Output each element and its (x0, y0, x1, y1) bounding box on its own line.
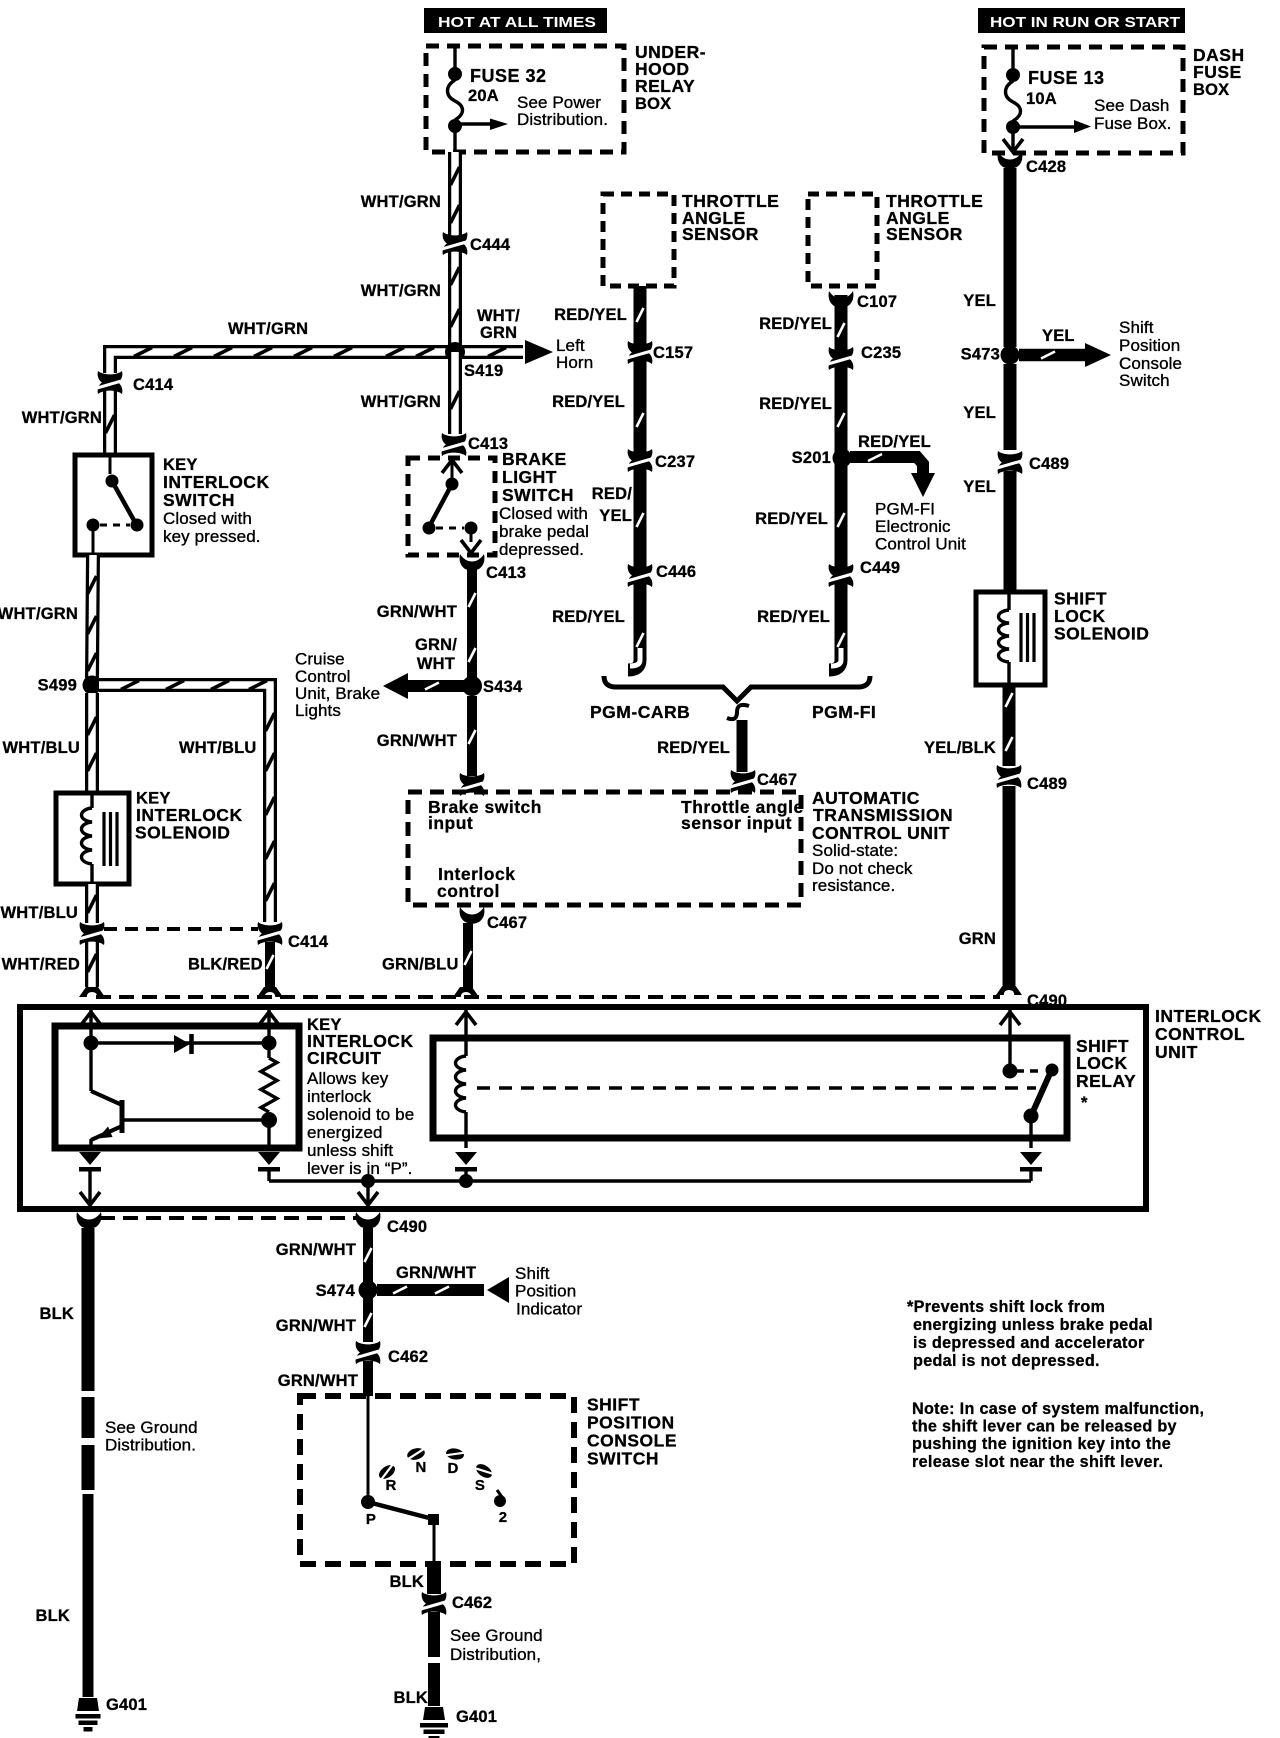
svg-text:Position: Position (1119, 336, 1180, 355)
svg-text:RELAY: RELAY (1076, 1071, 1136, 1091)
svg-text:C467: C467 (757, 771, 797, 789)
svg-text:Control Unit: Control Unit (875, 535, 966, 554)
svg-text:G401: G401 (106, 1696, 147, 1714)
svg-text:RED/YEL: RED/YEL (552, 393, 625, 411)
svg-text:BOX: BOX (1193, 81, 1229, 99)
svg-text:FUSE 13: FUSE 13 (1028, 68, 1105, 88)
svg-text:G401: G401 (456, 1708, 497, 1726)
svg-text:C237: C237 (655, 453, 695, 471)
svg-text:depressed.: depressed. (499, 540, 584, 559)
svg-text:S474: S474 (316, 1282, 356, 1300)
svg-text:solenoid to be: solenoid to be (307, 1105, 414, 1124)
svg-text:BOX: BOX (635, 95, 671, 113)
svg-text:S201: S201 (792, 449, 831, 467)
svg-text:Cruise: Cruise (295, 650, 345, 669)
svg-text:YEL: YEL (963, 478, 996, 496)
svg-text:WHT/GRN: WHT/GRN (361, 393, 441, 411)
svg-text:S: S (475, 1477, 485, 1494)
svg-text:LIGHT: LIGHT (502, 467, 557, 487)
svg-text:10A: 10A (1026, 90, 1057, 108)
svg-text:Allows key: Allows key (307, 1069, 389, 1088)
svg-text:Horn: Horn (556, 353, 593, 372)
svg-text:RED/YEL: RED/YEL (552, 608, 625, 626)
svg-text:LOCK: LOCK (1076, 1053, 1128, 1073)
svg-text:PGM-CARB: PGM-CARB (590, 702, 690, 722)
svg-text:C413: C413 (486, 564, 526, 582)
svg-text:SWITCH: SWITCH (502, 485, 574, 505)
svg-text:energizing unless brake pedal: energizing unless brake pedal (913, 1316, 1153, 1334)
svg-text:SOLENOID: SOLENOID (135, 823, 230, 843)
svg-text:the shift lever can be release: the shift lever can be released by (912, 1418, 1177, 1436)
svg-text:See Ground: See Ground (450, 1626, 543, 1645)
svg-text:S499: S499 (38, 677, 77, 695)
svg-text:WHT/BLU: WHT/BLU (1, 904, 78, 922)
svg-text:Distribution,: Distribution, (450, 1645, 541, 1664)
svg-text:C414: C414 (133, 376, 174, 394)
svg-text:C449: C449 (860, 559, 900, 577)
svg-text:WHT/GRN: WHT/GRN (361, 282, 441, 300)
svg-text:Position: Position (515, 1282, 576, 1301)
svg-text:YEL: YEL (1042, 327, 1075, 345)
svg-text:BLK: BLK (393, 1689, 428, 1707)
svg-text:C489: C489 (1029, 455, 1069, 473)
svg-text:C490: C490 (387, 1218, 427, 1236)
svg-text:P: P (366, 1511, 376, 1528)
svg-text:UNIT: UNIT (1155, 1042, 1198, 1062)
svg-text:RED/YEL: RED/YEL (657, 739, 730, 757)
svg-text:GRN/WHT: GRN/WHT (278, 1372, 358, 1390)
svg-text:C414: C414 (288, 933, 329, 951)
svg-text:is depressed and accelerator: is depressed and accelerator (913, 1334, 1145, 1352)
svg-text:S434: S434 (483, 678, 523, 696)
svg-text:RED/YEL: RED/YEL (755, 510, 828, 528)
svg-text:BLK: BLK (39, 1305, 74, 1323)
svg-text:energized: energized (307, 1123, 383, 1142)
svg-text:GRN: GRN (959, 930, 996, 948)
svg-text:key pressed.: key pressed. (163, 527, 261, 546)
svg-text:C446: C446 (656, 563, 696, 581)
svg-text:C467: C467 (487, 914, 527, 932)
svg-text:Shift: Shift (515, 1264, 550, 1283)
svg-text:RELAY: RELAY (635, 76, 695, 96)
svg-text:PGM-FI: PGM-FI (812, 702, 876, 722)
svg-text:YEL: YEL (599, 507, 632, 525)
svg-text:GRN/WHT: GRN/WHT (276, 1317, 356, 1335)
svg-text:BLK: BLK (35, 1607, 70, 1625)
svg-text:FUSE 32: FUSE 32 (470, 66, 547, 86)
svg-text:Electronic: Electronic (875, 517, 951, 536)
svg-text:D: D (447, 1460, 458, 1477)
svg-text:PGM-FI: PGM-FI (875, 500, 935, 519)
svg-text:release slot near the shift le: release slot near the shift lever. (912, 1453, 1163, 1471)
svg-text:pushing the ignition key into: pushing the ignition key into the (912, 1435, 1171, 1453)
svg-text:BLK/RED: BLK/RED (188, 956, 263, 974)
svg-text:S419: S419 (464, 362, 503, 380)
svg-text:lever is in “P”.: lever is in “P”. (307, 1159, 413, 1178)
svg-text:WHT/GRN: WHT/GRN (22, 409, 102, 427)
svg-text:GRN/WHT: GRN/WHT (396, 1264, 476, 1282)
svg-text:SHIFT: SHIFT (587, 1395, 640, 1415)
svg-text:WHT/GRN: WHT/GRN (228, 320, 308, 338)
svg-text:interlock: interlock (307, 1087, 372, 1106)
svg-text:C157: C157 (653, 344, 693, 362)
svg-text:resistance.: resistance. (812, 876, 895, 895)
svg-text:Indicator: Indicator (516, 1300, 582, 1319)
svg-text:FUSE: FUSE (1193, 62, 1242, 82)
svg-text:*: * (1081, 1094, 1088, 1112)
svg-text:sensor input: sensor input (681, 813, 792, 833)
svg-text:Switch: Switch (1119, 371, 1170, 390)
svg-text:See Ground: See Ground (105, 1418, 198, 1437)
svg-text:C489: C489 (1027, 775, 1067, 793)
svg-text:WHT/RED: WHT/RED (2, 956, 80, 974)
svg-text:Note: In case of system malfun: Note: In case of system malfunction, (912, 1400, 1204, 1418)
svg-text:CONTROL UNIT: CONTROL UNIT (812, 823, 950, 843)
svg-text:C462: C462 (452, 1594, 492, 1612)
svg-text:GRN/WHT: GRN/WHT (276, 1241, 356, 1259)
svg-text:HOT IN RUN OR START: HOT IN RUN OR START (990, 14, 1180, 31)
svg-text:Lights: Lights (295, 701, 341, 720)
svg-text:RED/YEL: RED/YEL (759, 395, 832, 413)
svg-text:pedal is not depressed.: pedal is not depressed. (913, 1352, 1100, 1370)
svg-text:C235: C235 (861, 344, 901, 362)
svg-text:R: R (385, 1477, 396, 1494)
svg-text:WHT/BLU: WHT/BLU (3, 739, 80, 757)
svg-text:GRN/BLU: GRN/BLU (382, 956, 459, 974)
svg-text:WHT/GRN: WHT/GRN (361, 193, 441, 211)
svg-text:control: control (437, 881, 500, 901)
svg-text:2: 2 (499, 1509, 508, 1526)
svg-text:Solid-state:: Solid-state: (812, 841, 898, 860)
svg-text:WHT/BLU: WHT/BLU (179, 739, 256, 757)
svg-text:Shift: Shift (1119, 318, 1154, 337)
svg-text:POSITION: POSITION (587, 1413, 675, 1433)
svg-text:S473: S473 (961, 346, 1000, 364)
svg-text:N: N (415, 1459, 426, 1476)
svg-text:C107: C107 (857, 293, 897, 311)
svg-text:RED/YEL: RED/YEL (554, 306, 627, 324)
svg-text:YEL: YEL (963, 404, 996, 422)
svg-text:INTERLOCK: INTERLOCK (1155, 1006, 1262, 1026)
svg-text:CONTROL: CONTROL (1155, 1024, 1245, 1044)
svg-text:YEL: YEL (963, 292, 996, 310)
svg-text:RED/YEL: RED/YEL (759, 315, 832, 333)
svg-text:GRN: GRN (480, 324, 517, 342)
svg-text:C428: C428 (1026, 158, 1066, 176)
svg-text:Distribution.: Distribution. (105, 1436, 196, 1455)
svg-text:SWITCH: SWITCH (587, 1449, 659, 1469)
svg-text:SENSOR: SENSOR (682, 224, 759, 244)
svg-text:C444: C444 (470, 236, 511, 254)
svg-text:See Dash: See Dash (1094, 96, 1169, 115)
svg-text:BLK: BLK (389, 1573, 424, 1591)
svg-text:HOT AT ALL TIMES: HOT AT ALL TIMES (438, 14, 596, 31)
svg-text:RED/YEL: RED/YEL (757, 608, 830, 626)
svg-text:WHT/: WHT/ (477, 307, 520, 325)
svg-text:20A: 20A (468, 87, 499, 105)
svg-text:CIRCUIT: CIRCUIT (307, 1048, 381, 1068)
svg-text:*Prevents shift lock from: *Prevents shift lock from (907, 1298, 1105, 1316)
svg-text:CONSOLE: CONSOLE (587, 1431, 677, 1451)
svg-text:WHT/GRN: WHT/GRN (0, 605, 78, 623)
svg-text:input: input (428, 813, 473, 833)
svg-text:RED/: RED/ (592, 485, 632, 503)
svg-text:GRN/: GRN/ (415, 636, 457, 654)
svg-text:GRN/WHT: GRN/WHT (377, 732, 457, 750)
svg-text:SWITCH: SWITCH (163, 490, 235, 510)
svg-text:C462: C462 (388, 1348, 428, 1366)
svg-text:brake pedal: brake pedal (499, 522, 589, 541)
svg-text:unless shift: unless shift (307, 1141, 393, 1160)
svg-text:Distribution.: Distribution. (517, 110, 608, 129)
svg-text:BRAKE: BRAKE (502, 449, 567, 469)
svg-text:INTERLOCK: INTERLOCK (163, 472, 270, 492)
svg-text:WHT: WHT (417, 655, 455, 673)
svg-text:Closed with: Closed with (163, 509, 252, 528)
svg-text:SOLENOID: SOLENOID (1054, 624, 1149, 644)
svg-text:GRN/WHT: GRN/WHT (377, 603, 457, 621)
svg-text:Closed with: Closed with (499, 504, 588, 523)
svg-text:YEL/BLK: YEL/BLK (924, 739, 996, 757)
svg-text:SENSOR: SENSOR (886, 224, 963, 244)
svg-text:TRANSMISSION: TRANSMISSION (813, 805, 953, 825)
svg-text:Fuse Box.: Fuse Box. (1094, 114, 1171, 133)
svg-text:RED/YEL: RED/YEL (858, 433, 931, 451)
